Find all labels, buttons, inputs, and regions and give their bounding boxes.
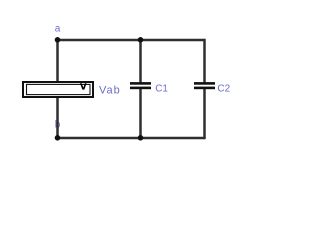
voltmeter Vab outer body (23, 82, 93, 97)
voltmeter V symbol (80, 83, 87, 89)
wire C1 vertical bottom (139, 89, 142, 139)
wire C2 vertical bottom (203, 89, 206, 139)
wire left vertical voltmeter to b (56, 98, 59, 138)
junction C1 top (138, 37, 144, 43)
wire C2 vertical top (203, 39, 206, 83)
wire bottom horizontal b to C2 corner (58, 137, 205, 140)
wire left vertical a to voltmeter (56, 39, 59, 82)
capacitor C2 bottom plate (194, 87, 215, 90)
capacitor C1 top plate (130, 82, 151, 85)
svg-text:C1: C1 (155, 84, 168, 95)
svg-text:Vab: Vab (99, 85, 121, 97)
capacitor C2 top plate (194, 82, 215, 85)
junction node b (55, 135, 61, 141)
wire C1 vertical top (139, 39, 142, 83)
junction node a (55, 37, 61, 43)
voltmeter inner display (27, 84, 91, 94)
wire top horizontal a to C2 corner (58, 39, 205, 42)
svg-text:a: a (55, 23, 61, 34)
junction C1 bottom (138, 135, 144, 141)
capacitor C1 bottom plate (130, 87, 151, 90)
svg-text:C2: C2 (217, 84, 230, 95)
